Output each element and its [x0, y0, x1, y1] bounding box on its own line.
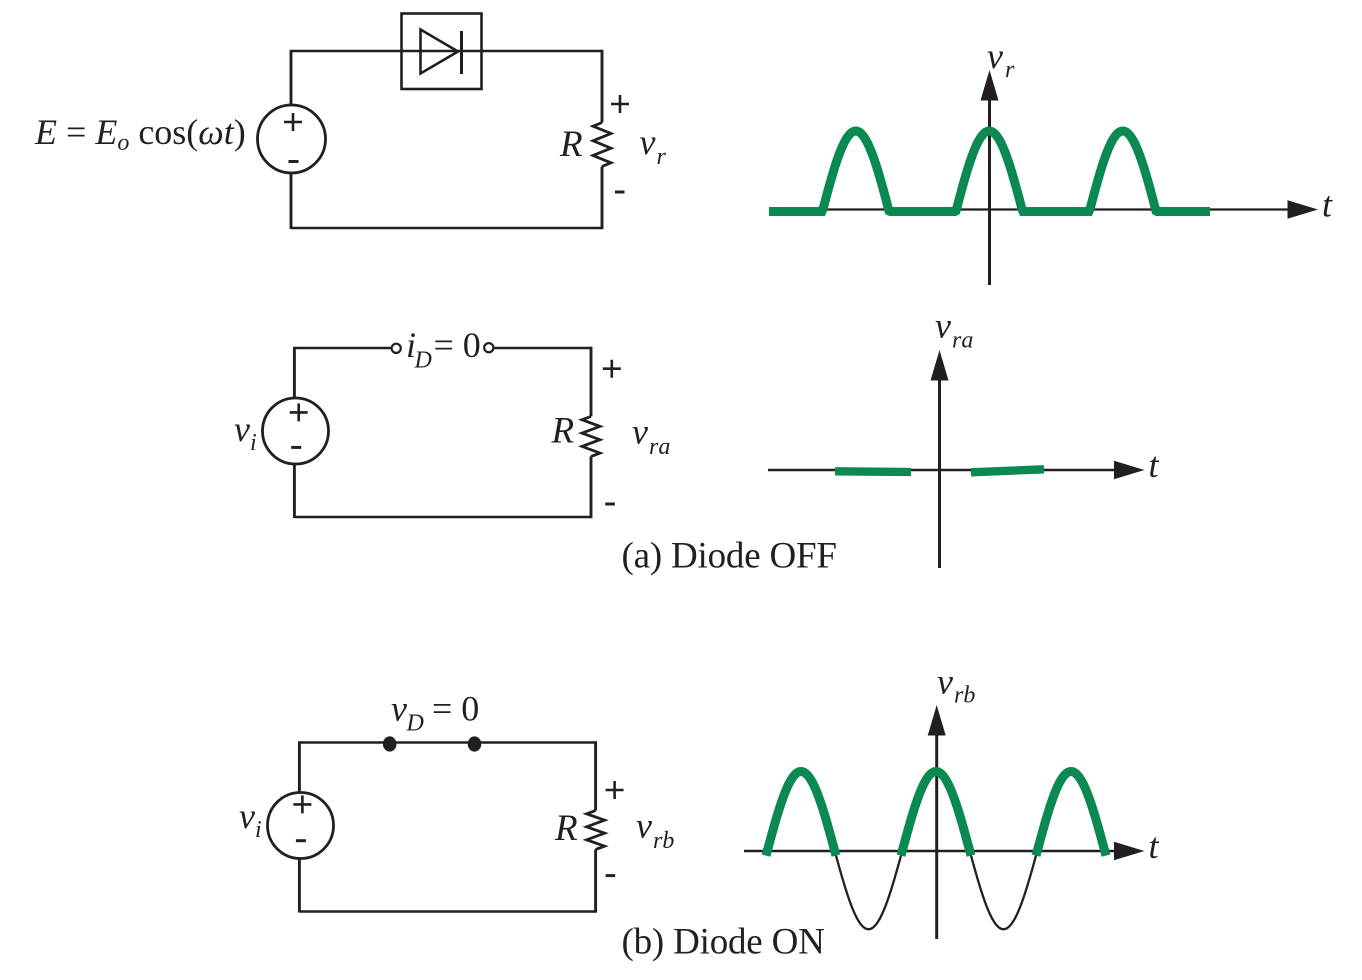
wire: circuit1 right vertical lower [601, 167, 604, 230]
label + (circuit3 resistor) [606, 781, 624, 799]
svg-text:R: R [559, 124, 583, 165]
wire: circuit2 right vertical upper [590, 347, 593, 417]
waveform2 horizontal axis (t) [768, 469, 1115, 471]
waveform2 v-axis arrowhead [931, 350, 949, 381]
waveform2 green zero segment left [835, 467, 911, 476]
svg-text:R: R [551, 411, 575, 452]
wire: circuit1 right vertical upper [601, 50, 604, 123]
wire: circuit3 top wire [299, 741, 595, 743]
source V2 minus sign [291, 446, 301, 449]
svg-text:t: t [1149, 826, 1160, 866]
wire: circuit2 top wire left [294, 347, 390, 349]
wire: circuit3 left vertical upper [298, 741, 301, 793]
svg-text:(a) Diode OFF: (a) Diode OFF [622, 536, 837, 577]
resistor R (circuit3) [587, 811, 605, 850]
source V2 circle (vi) [263, 398, 329, 464]
resistor R (circuit2) [582, 416, 600, 456]
label - (circuit1 resistor) [615, 191, 625, 194]
source V1 minus sign [289, 160, 299, 163]
svg-text:E = Eo cos(ωt): E = Eo cos(ωt) [34, 112, 246, 156]
source V2 plus sign [290, 403, 308, 421]
waveform3 v-axis arrowhead [928, 705, 946, 736]
waveform1 horizontal axis (t) [770, 208, 1289, 210]
diode D1 triangle [421, 30, 459, 74]
source V3 circle (vi) [268, 793, 334, 859]
terminal circle right (iD) [484, 343, 493, 352]
waveform3 green positive half-cycle (peak 936) [901, 772, 971, 856]
waveform1 t-axis arrowhead [1288, 200, 1319, 218]
waveform3 vertical axis (vrb) [935, 734, 938, 939]
wire: circuit1 bottom wire [291, 227, 602, 229]
svg-text:t: t [1322, 185, 1333, 225]
label - (circuit2 resistor) [605, 503, 615, 506]
waveform2 vertical axis (vra) [938, 379, 941, 568]
wire: circuit3 bottom wire [299, 910, 595, 912]
wire: circuit2 left vertical upper [293, 347, 296, 399]
source V3 minus sign [296, 839, 306, 842]
wire: circuit2 right vertical lower [590, 456, 593, 518]
svg-text:(b) Diode ON: (b) Diode ON [622, 922, 825, 963]
wire: circuit3 left vertical lower [298, 858, 301, 913]
diode D1 cathode bar [460, 31, 463, 74]
waveform3 green positive half-cycle (peak 1071) [1036, 772, 1106, 856]
diode D1 box [402, 14, 482, 90]
waveform1 v-axis arrowhead [981, 70, 999, 101]
label + (circuit2 resistor) [603, 360, 621, 378]
wire: circuit3 right vertical upper [594, 741, 597, 810]
wire: circuit2 bottom wire [294, 516, 591, 518]
junction dot left (vD) [383, 736, 397, 751]
junction dot right (vD) [468, 736, 482, 751]
wire: circuit3 right vertical lower [594, 850, 597, 913]
waveform1 vertical axis (vr) [988, 99, 991, 285]
waveform3 horizontal axis (t) [744, 850, 1115, 852]
wire: circuit1 top wire [291, 50, 602, 52]
resistor R (circuit1) [593, 123, 611, 167]
source V1 plus sign [284, 113, 302, 131]
terminal circle left (iD) [392, 344, 401, 353]
svg-text:R: R [554, 808, 578, 849]
wire: circuit2 top wire right [494, 347, 591, 349]
waveform3 green positive half-cycle (peak 801) [766, 772, 836, 856]
wire: circuit1 left vertical upper [290, 50, 293, 106]
source V3 plus sign [293, 795, 311, 813]
wire: circuit2 left vertical lower [293, 464, 296, 519]
wire: circuit1 left vertical lower [290, 173, 293, 230]
label - (circuit3 resistor) [606, 874, 616, 877]
waveform2 green zero segment right [971, 469, 1044, 472]
waveform2 t-axis arrowhead [1114, 461, 1145, 479]
waveform3 black cosine curve [768, 773, 1104, 929]
label + (circuit1 resistor) [611, 95, 629, 113]
source V1 circle (E) [258, 105, 326, 173]
svg-text:t: t [1149, 445, 1160, 485]
waveform3 t-axis arrowhead [1114, 842, 1145, 860]
waveform1 green rectified cosine curve [769, 131, 1210, 212]
